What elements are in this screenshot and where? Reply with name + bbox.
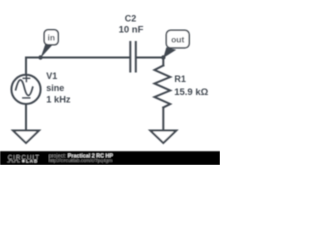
voltage source V1 circle <box>11 75 40 104</box>
wire R1 bottom to ground <box>162 108 164 131</box>
svg-text:sine: sine <box>46 83 64 93</box>
footer logo squarewave <box>7 160 20 162</box>
wire top horizontal right (C2 right plate to out node) <box>137 57 164 59</box>
wire out node down to R1 <box>162 58 164 66</box>
svg-text:in: in <box>48 32 56 42</box>
capacitor C2 right plate <box>135 42 137 72</box>
svg-text:out: out <box>171 35 184 45</box>
net flag out box <box>166 30 189 48</box>
resistor R1 zigzag <box>155 66 171 108</box>
footer bar <box>0 151 220 165</box>
wire V1 bottom lead to ground <box>25 104 27 131</box>
footer logo LAB diamond <box>22 160 24 162</box>
ground symbol right <box>150 131 176 144</box>
capacitor C2 left plate <box>129 42 131 72</box>
V1 sine symbol <box>16 80 33 96</box>
wire top horizontal left (V1 to C2 left plate) <box>26 57 129 59</box>
svg-text:C2: C2 <box>125 14 137 24</box>
svg-text:1 kHz: 1 kHz <box>46 95 71 105</box>
wire V1 top lead <box>25 58 27 75</box>
svg-text:R1: R1 <box>174 74 186 84</box>
net flag in box <box>44 30 58 45</box>
net flag out pointer <box>163 47 176 58</box>
ground symbol left <box>13 131 39 144</box>
svg-text:http://circuitlab.com/c/7pq4gm: http://circuitlab.com/c/7pq4gm <box>49 158 113 164</box>
svg-text:10 nF: 10 nF <box>119 24 144 35</box>
node dot in <box>38 55 42 59</box>
node dot out <box>161 55 165 59</box>
svg-text:LAB: LAB <box>26 159 38 164</box>
svg-text:V1: V1 <box>46 71 57 81</box>
net flag in pointer <box>41 44 53 58</box>
V1 minus sign <box>23 97 30 99</box>
V1 plus sign <box>23 75 29 81</box>
svg-text:15.9 kΩ: 15.9 kΩ <box>174 87 208 98</box>
